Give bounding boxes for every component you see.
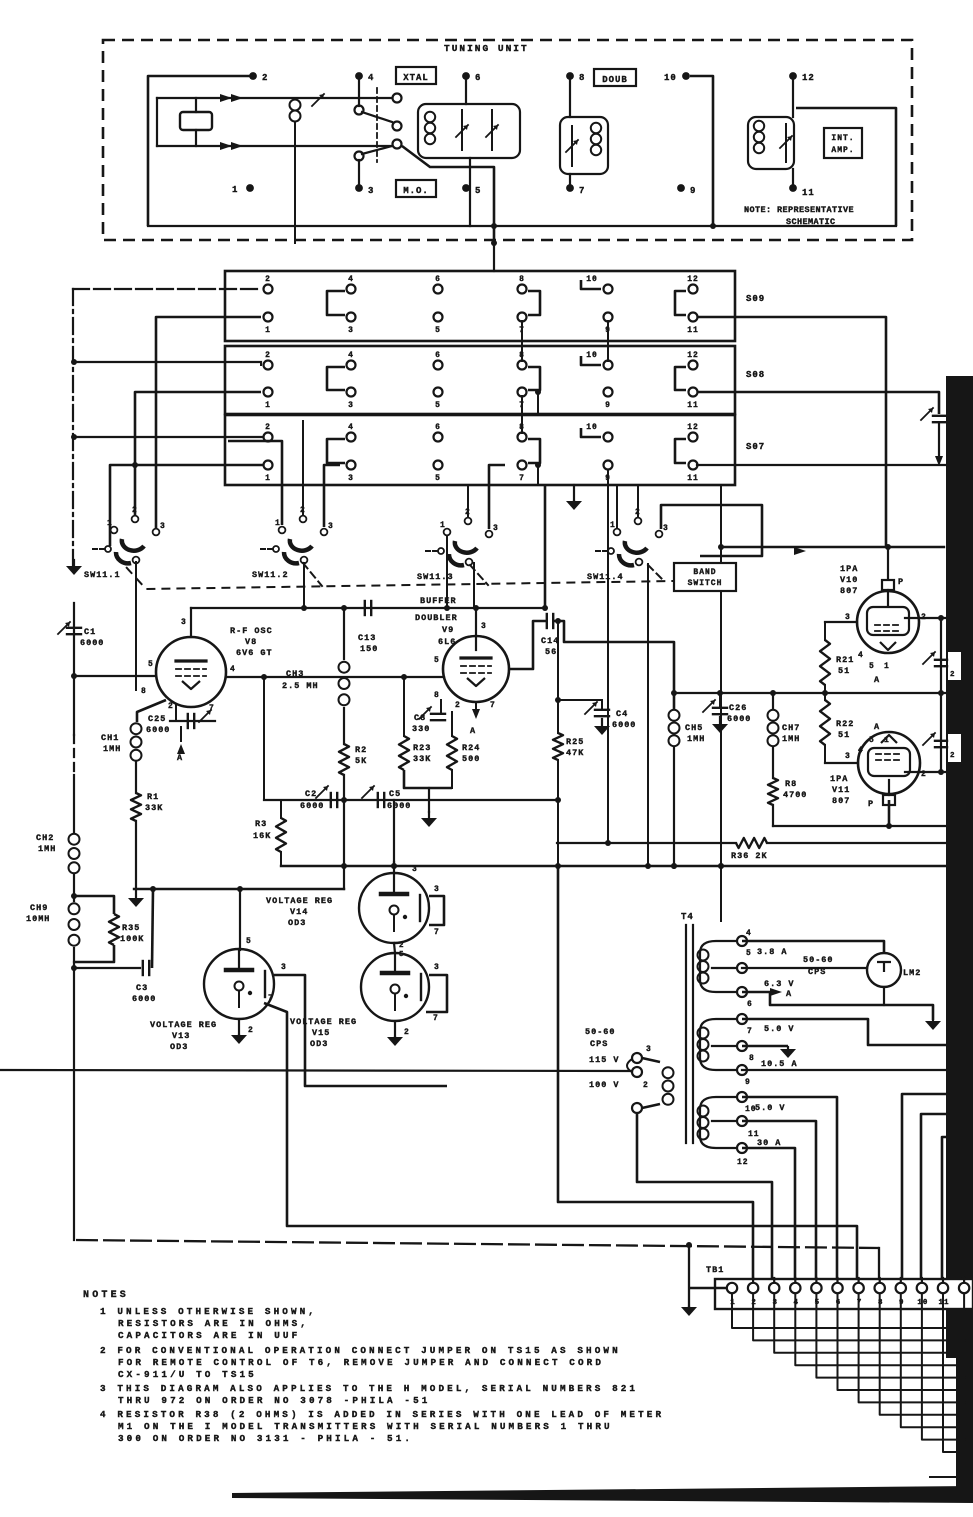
- wire S08 rail lower with arrow: [938, 424, 940, 456]
- connector S08 terminal 3: [347, 388, 356, 397]
- svg-text:C25: C25: [148, 714, 166, 724]
- terminal board TB1 outline: [715, 1279, 973, 1309]
- svg-text:9: 9: [745, 1078, 751, 1087]
- connector S07 outline: [225, 415, 735, 485]
- svg-text:DOUBLER: DOUBLER: [415, 613, 458, 623]
- wire S07 drop to grid bus: [544, 485, 547, 608]
- svg-text:5: 5: [435, 474, 441, 483]
- connector S09 jumper terminals 7-8: [528, 291, 540, 315]
- svg-text:2: 2: [455, 701, 461, 710]
- wire wafer SW11.2 terminal 3 to S07: [324, 465, 340, 527]
- wire V8 plate to grid line: [190, 608, 192, 637]
- svg-text:1: 1: [265, 401, 271, 410]
- ground under C26: [719, 717, 721, 724]
- svg-text:11: 11: [687, 326, 699, 335]
- wire terminal 6 to tank: [465, 80, 467, 104]
- svg-text:6V6 GT: 6V6 GT: [236, 648, 273, 658]
- svg-text:2: 2: [950, 752, 956, 760]
- svg-text:11: 11: [802, 188, 815, 198]
- TB1 terminal 6: [836, 1278, 838, 1284]
- wire wafer SW11.2 rotor down: [303, 563, 305, 608]
- svg-text:1: 1: [265, 326, 271, 335]
- tuning unit terminal 2: [249, 72, 257, 80]
- svg-text:5K: 5K: [355, 756, 367, 766]
- svg-text:3: 3: [646, 1045, 652, 1054]
- tuning unit terminal 4: [355, 72, 363, 80]
- wire wafer SW11.3 terminal 2 up: [467, 485, 469, 516]
- ground under S07: [573, 485, 575, 500]
- coil tuning L1: [290, 100, 301, 111]
- svg-text:1MH: 1MH: [38, 844, 56, 854]
- wire TB1 terminal 1 harness: [732, 1293, 973, 1328]
- tuning unit terminal 11: [789, 184, 797, 192]
- svg-text:C14: C14: [541, 636, 559, 646]
- connector S07 stub terminal 7 dot: [535, 462, 541, 468]
- svg-text:5: 5: [434, 656, 440, 665]
- wire V9 plate lead: [475, 608, 477, 650]
- capacitor tank C-b: [491, 110, 493, 150]
- svg-text:12: 12: [687, 351, 699, 360]
- svg-text:R23: R23: [413, 743, 431, 753]
- svg-text:10: 10: [664, 73, 677, 83]
- tuning unit terminal 1: [246, 184, 254, 192]
- tube V13 VOLTAGE REG: [204, 949, 274, 1019]
- wire TB1 terminal 5 harness: [816, 1293, 973, 1378]
- connector S08 terminal 7: [518, 388, 527, 397]
- wire left rail to S09 terminal 2: [73, 288, 261, 290]
- wire terminal 2 left drop: [148, 76, 253, 226]
- wire wafer SW11.3 terminal 1 down to V9 grid line: [446, 537, 448, 608]
- wire right bracket TB1-12: [948, 1160, 963, 1283]
- choke CH7: [772, 693, 774, 709]
- connector S07 jumper terminals 11-12: [675, 439, 686, 463]
- svg-text:V9: V9: [442, 625, 454, 635]
- svg-text:2: 2: [950, 671, 956, 679]
- wire TB1 terminal 12 harness: [964, 1293, 973, 1464]
- svg-text:OD3: OD3: [310, 1039, 328, 1049]
- wire V8 pin5 from rail: [74, 675, 156, 677]
- wire wafer SW11.3 terminal 3 to S07: [489, 465, 505, 529]
- svg-text:8: 8: [141, 687, 147, 696]
- connector S07 terminal 1: [264, 461, 273, 470]
- wire C14 to CH5: [554, 621, 674, 709]
- svg-text:BAND: BAND: [693, 568, 716, 577]
- svg-text:TUNING UNIT: TUNING UNIT: [444, 43, 529, 54]
- tuning unit terminal 9: [677, 184, 685, 192]
- connector S09 terminal 12: [689, 285, 698, 294]
- resistor R21: [824, 622, 826, 640]
- wire V11 pin2: [905, 771, 946, 773]
- svg-text:V11: V11: [832, 785, 850, 795]
- wire V9 pin4 to C14 jog: [509, 621, 546, 669]
- svg-text:2: 2: [643, 1081, 649, 1090]
- svg-text:1PA: 1PA: [830, 774, 848, 784]
- wire x558 drop to TB1-2: [558, 866, 753, 1283]
- wire pin2 rail: [940, 618, 942, 772]
- svg-text:CH7: CH7: [782, 723, 800, 733]
- svg-text:7: 7: [579, 186, 585, 196]
- svg-text:CH9: CH9: [30, 903, 48, 913]
- svg-text:NOTE: REPRESENTATIVE: NOTE: REPRESENTATIVE: [744, 205, 854, 215]
- svg-text:INT.: INT.: [831, 134, 854, 143]
- wire TB1 terminal 3 harness: [774, 1293, 973, 1353]
- wire V14 V15 link: [394, 943, 395, 953]
- svg-text:6.3 V: 6.3 V: [764, 979, 795, 989]
- wire V15 pin3 loop: [426, 975, 447, 1012]
- svg-text:6000: 6000: [146, 725, 170, 735]
- connector S07 terminal 11: [689, 461, 698, 470]
- svg-text:7: 7: [209, 704, 215, 713]
- tube V8 R-F OSC: [156, 637, 226, 707]
- svg-text:3: 3: [281, 963, 287, 972]
- transformer T4 secondary winding 10-12: [700, 1097, 742, 1148]
- svg-text:R2: R2: [355, 745, 367, 755]
- svg-text:CAPACITORS ARE IN UUF: CAPACITORS ARE IN UUF: [118, 1330, 300, 1341]
- box label XTAL: [396, 67, 436, 84]
- svg-text:SW11.1: SW11.1: [84, 570, 121, 580]
- svg-text:6: 6: [435, 351, 441, 360]
- wire tank T2 to terminal 7: [569, 174, 571, 184]
- wire V14 column to 800 bus: [393, 800, 395, 862]
- svg-text:3: 3: [160, 522, 166, 531]
- svg-text:CH5: CH5: [685, 723, 703, 733]
- TB1 terminal 7: [857, 1278, 859, 1284]
- wire V14 pin3 loop: [429, 896, 444, 925]
- TB1 terminal 9: [900, 1278, 902, 1284]
- svg-text:115 V: 115 V: [589, 1055, 620, 1065]
- svg-text:3: 3: [348, 474, 354, 483]
- wire right bracket TB1-11: [942, 1137, 948, 1283]
- scan artifact black margin right: [946, 376, 973, 1358]
- svg-text:4: 4: [746, 929, 752, 938]
- resistor R8: [768, 778, 778, 805]
- tuning unit terminal 10: [682, 72, 690, 80]
- wire R2 column to 866 bus: [343, 800, 345, 866]
- connector S07 terminal 6: [434, 433, 443, 442]
- wire terminal 4 to switch: [358, 80, 360, 106]
- svg-text:TB1: TB1: [706, 1265, 724, 1275]
- svg-text:1MH: 1MH: [103, 744, 121, 754]
- svg-text:V13: V13: [172, 1031, 190, 1041]
- svg-text:VOLTAGE REG: VOLTAGE REG: [290, 1017, 357, 1027]
- transformer T4 secondary terminal 11: [737, 1116, 747, 1126]
- connector S09 terminal 3: [347, 313, 356, 322]
- svg-text:100K: 100K: [120, 934, 144, 944]
- connector S08 terminal 4: [347, 361, 356, 370]
- svg-text:9: 9: [690, 186, 696, 196]
- svg-text:R36 2K: R36 2K: [731, 851, 768, 861]
- tube V10 1PA 807: [887, 547, 889, 579]
- wire top feed y547 with arrow: [721, 546, 944, 548]
- transformer T4 secondary terminal 9: [737, 1065, 747, 1075]
- capacitor C14: [546, 614, 548, 628]
- wire capacitor bus y800: [264, 799, 558, 801]
- svg-text:12: 12: [687, 423, 699, 432]
- svg-text:3: 3: [412, 865, 418, 874]
- svg-text:A: A: [874, 722, 880, 732]
- connector S09 terminal 2: [264, 285, 273, 294]
- svg-text:CX-911/U TO TS15: CX-911/U TO TS15: [118, 1369, 257, 1380]
- wire S08 terminal 1 to SW11.1 contact 2: [135, 392, 261, 515]
- TB1 terminal 1: [727, 1283, 737, 1293]
- resistor R3: [280, 800, 282, 818]
- wire S07 terminal 1 to SW11.1 rotor contact: [110, 465, 263, 546]
- svg-text:7: 7: [490, 701, 496, 710]
- capacitor C2: [330, 793, 332, 807]
- svg-text:500: 500: [462, 754, 480, 764]
- connector S07 terminal 8: [518, 433, 527, 442]
- svg-text:R22: R22: [836, 719, 854, 729]
- wire wafer SW11.4 terminal 1 up: [616, 485, 618, 528]
- wire TB1 terminal 9 harness: [901, 1293, 973, 1427]
- svg-text:4: 4: [368, 73, 374, 83]
- svg-text:5.0 V: 5.0 V: [755, 1103, 786, 1113]
- pin 4 wire V8 to V9 pin5: [226, 676, 444, 678]
- connector S07 jumper terminals 7-8: [528, 439, 540, 463]
- svg-text:P: P: [898, 577, 904, 587]
- rotary switch wafer SW11.2: [279, 527, 286, 534]
- capacitor C right upper: [935, 659, 947, 661]
- svg-text:6: 6: [435, 275, 441, 284]
- svg-text:8: 8: [749, 1054, 755, 1063]
- connector S07 terminal 5: [434, 461, 443, 470]
- svg-text:150: 150: [360, 644, 378, 654]
- connector S08 jumper terminals 7-8: [528, 367, 540, 390]
- box label DOUB: [594, 69, 636, 86]
- svg-text:S08: S08: [746, 370, 765, 380]
- choke CH1: [131, 723, 142, 734]
- wire wafer SW11.1 rotor down: [135, 562, 137, 690]
- capacitor C26: [719, 693, 721, 706]
- svg-text:6: 6: [747, 1000, 753, 1009]
- tuning unit enclosure (dashed): [103, 40, 912, 240]
- svg-text:1MH: 1MH: [687, 734, 705, 744]
- coil tank T1: [425, 112, 435, 122]
- connector S07 stub terminal 10: [581, 428, 601, 437]
- wire B+ bus y866: [281, 865, 946, 867]
- svg-text:SW11.4: SW11.4: [587, 572, 624, 582]
- TB1 terminal 4: [794, 1278, 796, 1284]
- connector S07 terminal 10: [604, 433, 613, 442]
- transformer T4 secondary terminal 8: [737, 1041, 747, 1051]
- choke CH2: [69, 834, 80, 845]
- svg-text:SW11.3: SW11.3: [417, 572, 454, 582]
- svg-text:NOTES: NOTES: [83, 1290, 129, 1301]
- connector S08 terminal 12: [689, 361, 698, 370]
- connector S08 terminal 9: [604, 388, 613, 397]
- mechanical linkage dashed line: [116, 556, 674, 589]
- svg-text:1: 1: [265, 474, 271, 483]
- svg-text:R24: R24: [462, 743, 480, 753]
- ground under V13: [238, 1019, 240, 1034]
- choke CH3: [343, 608, 345, 659]
- resistor R1: [131, 793, 141, 821]
- svg-text:3.8 A: 3.8 A: [757, 947, 788, 957]
- capacitor C3: [74, 967, 140, 969]
- svg-text:6L6: 6L6: [438, 637, 456, 647]
- connector S09 terminal 7: [518, 313, 527, 322]
- svg-text:2.5 MH: 2.5 MH: [282, 681, 319, 691]
- connector S09 jumper terminals 11-12: [675, 291, 686, 315]
- wire V13 pin3 to V15 loop: [274, 975, 447, 1086]
- svg-text:BUFFER: BUFFER: [420, 596, 457, 606]
- svg-text:C8: C8: [414, 713, 426, 723]
- connector S09 terminal 1: [264, 313, 273, 322]
- svg-text:807: 807: [832, 796, 850, 806]
- TB1 terminal 3: [773, 1278, 775, 1284]
- wire right bracket TB1-10: [921, 1114, 948, 1283]
- wire R1 to 889 bus: [135, 821, 137, 889]
- scan artifact black wedge bottom: [232, 1486, 973, 1503]
- resistor R24: [451, 712, 453, 736]
- tuning unit terminal 5: [462, 184, 470, 192]
- svg-text:5: 5: [399, 951, 405, 959]
- svg-text:4: 4: [858, 651, 864, 660]
- svg-text:XTAL: XTAL: [403, 73, 429, 83]
- svg-text:7: 7: [519, 474, 525, 483]
- switch S1 xtal/mo contacts: [393, 94, 402, 103]
- svg-text:8: 8: [579, 73, 585, 83]
- tuning unit terminal 7: [566, 184, 574, 192]
- svg-text:1MH: 1MH: [782, 734, 800, 744]
- connector S08 stub terminal 7 dot: [535, 389, 541, 395]
- svg-text:2: 2: [248, 1026, 254, 1035]
- svg-text:VOLTAGE REG: VOLTAGE REG: [150, 1020, 217, 1030]
- svg-text:4: 4: [348, 423, 354, 432]
- connector S07 terminal 2: [264, 433, 273, 442]
- resistor R25: [557, 621, 559, 733]
- wire plate bus y693: [674, 692, 946, 694]
- connector S09 outline: [225, 271, 735, 341]
- svg-text:12: 12: [737, 1158, 749, 1167]
- wire vertical x721 upper: [720, 485, 722, 561]
- svg-text:V10: V10: [840, 575, 858, 585]
- wire wafer SW11.4 rotor down long: [647, 564, 649, 866]
- svg-text:C13: C13: [358, 633, 376, 643]
- transformer T4 secondary terminal 7: [737, 1014, 747, 1024]
- transformer T4 primary terminal 1: [632, 1103, 642, 1113]
- svg-text:V14: V14: [290, 907, 308, 917]
- svg-text:6000: 6000: [300, 801, 324, 811]
- scan artifact bar notch upper: [948, 652, 961, 680]
- svg-text:2: 2: [265, 275, 271, 284]
- svg-text:5: 5: [435, 326, 441, 335]
- wire left rail to TB1-8 long dashed: [76, 1240, 879, 1248]
- connector S07 terminal 4: [347, 433, 356, 442]
- resistor R35: [74, 896, 114, 914]
- svg-text:2: 2: [399, 942, 405, 950]
- svg-text:CH1: CH1: [101, 733, 119, 743]
- svg-text:4700: 4700: [783, 790, 807, 800]
- svg-text:FOR REMOTE CONTROL OF T6, REMO: FOR REMOTE CONTROL OF T6, REMOVE JUMPER …: [118, 1357, 604, 1368]
- svg-text:12: 12: [802, 73, 815, 83]
- svg-text:CPS: CPS: [590, 1039, 608, 1049]
- tuning unit terminal 12: [789, 72, 797, 80]
- transformer T4 secondary terminal 10: [737, 1092, 747, 1102]
- wire tank to bottom bus: [469, 158, 471, 226]
- svg-text:2: 2: [262, 73, 268, 83]
- svg-text:6000: 6000: [727, 714, 751, 724]
- wire S08 terminal 11 to right rail: [697, 392, 939, 414]
- connector S08 terminal 2: [264, 361, 273, 370]
- tank circuit T3 outline: [748, 117, 794, 169]
- svg-text:C3: C3: [136, 983, 148, 993]
- svg-text:3: 3: [493, 524, 499, 533]
- ground left rail: [73, 560, 75, 566]
- svg-text:11: 11: [687, 401, 699, 410]
- tank circuit T1 outline: [418, 104, 520, 158]
- capacitor tank T2: [571, 126, 573, 166]
- svg-text:6: 6: [475, 73, 481, 83]
- resistor R2: [339, 744, 349, 775]
- transformer T4 primary terminal 2: [632, 1067, 642, 1077]
- svg-text:7: 7: [747, 1027, 753, 1036]
- svg-text:4: 4: [230, 665, 236, 674]
- wire terminal 10 right drop: [690, 76, 713, 226]
- svg-text:VOLTAGE REG: VOLTAGE REG: [266, 896, 333, 906]
- connector S08 jumper terminals 11-12: [675, 367, 686, 390]
- svg-text:10: 10: [586, 351, 598, 360]
- wire wafer SW11.2 terminal 1 up: [228, 441, 282, 525]
- svg-text:C1: C1: [84, 627, 96, 637]
- wire TB1-1 ground drop: [688, 1245, 690, 1306]
- connector S08 outline: [225, 346, 735, 414]
- wire V11 pin3 to R22: [825, 762, 858, 764]
- svg-text:AMP.: AMP.: [831, 146, 854, 155]
- TB1 terminal 8: [879, 1278, 881, 1284]
- wire tank T3 to terminal 11: [792, 169, 794, 186]
- svg-text:3: 3: [663, 524, 669, 533]
- svg-text:CPS: CPS: [808, 967, 826, 977]
- svg-text:6000: 6000: [80, 638, 104, 648]
- svg-text:16K: 16K: [253, 831, 271, 841]
- capacitor tank C-a: [461, 110, 463, 150]
- transformer T4 secondary terminal 12: [737, 1143, 747, 1153]
- svg-text:10MH: 10MH: [26, 914, 50, 924]
- connector S09 jumper terminals 3-4: [327, 291, 345, 315]
- svg-text:RESISTORS ARE IN OHMS,: RESISTORS ARE IN OHMS,: [118, 1318, 309, 1329]
- transformer T4 secondary terminal 5: [737, 963, 747, 973]
- svg-text:C4: C4: [616, 709, 628, 719]
- transformer T4 core: [685, 925, 687, 1143]
- connector S09 terminal 9: [604, 313, 613, 322]
- ground LM2: [932, 1020, 934, 1022]
- wire secondary 5 to LM2: [742, 967, 867, 969]
- svg-text:33K: 33K: [145, 803, 163, 813]
- capacitor C4: [601, 700, 603, 708]
- wire S07 terminal 11 to edge: [697, 464, 946, 466]
- wire V8 pin8 to CH1: [137, 700, 166, 722]
- ground under V9: [428, 788, 430, 812]
- svg-text:7: 7: [434, 928, 440, 937]
- svg-text:10.5 A: 10.5 A: [761, 1059, 798, 1069]
- wire secondary 4 to LM2: [742, 941, 884, 953]
- svg-text:2: 2: [265, 423, 271, 432]
- svg-text:5: 5: [869, 662, 875, 671]
- connector S08 terminal 6: [434, 361, 443, 370]
- svg-text:5: 5: [869, 736, 875, 745]
- svg-text:3: 3: [328, 522, 334, 531]
- wire harness extra 1: [930, 1476, 973, 1478]
- wire plate bus y608: [191, 607, 545, 609]
- svg-text:30 A: 30 A: [757, 1138, 781, 1148]
- tuning unit terminal 8: [566, 72, 574, 80]
- connector S09 terminal 10: [604, 285, 613, 294]
- svg-text:8: 8: [434, 691, 440, 700]
- svg-text:C2: C2: [305, 789, 317, 799]
- svg-text:3: 3: [434, 963, 440, 972]
- svg-text:3: 3: [845, 613, 851, 622]
